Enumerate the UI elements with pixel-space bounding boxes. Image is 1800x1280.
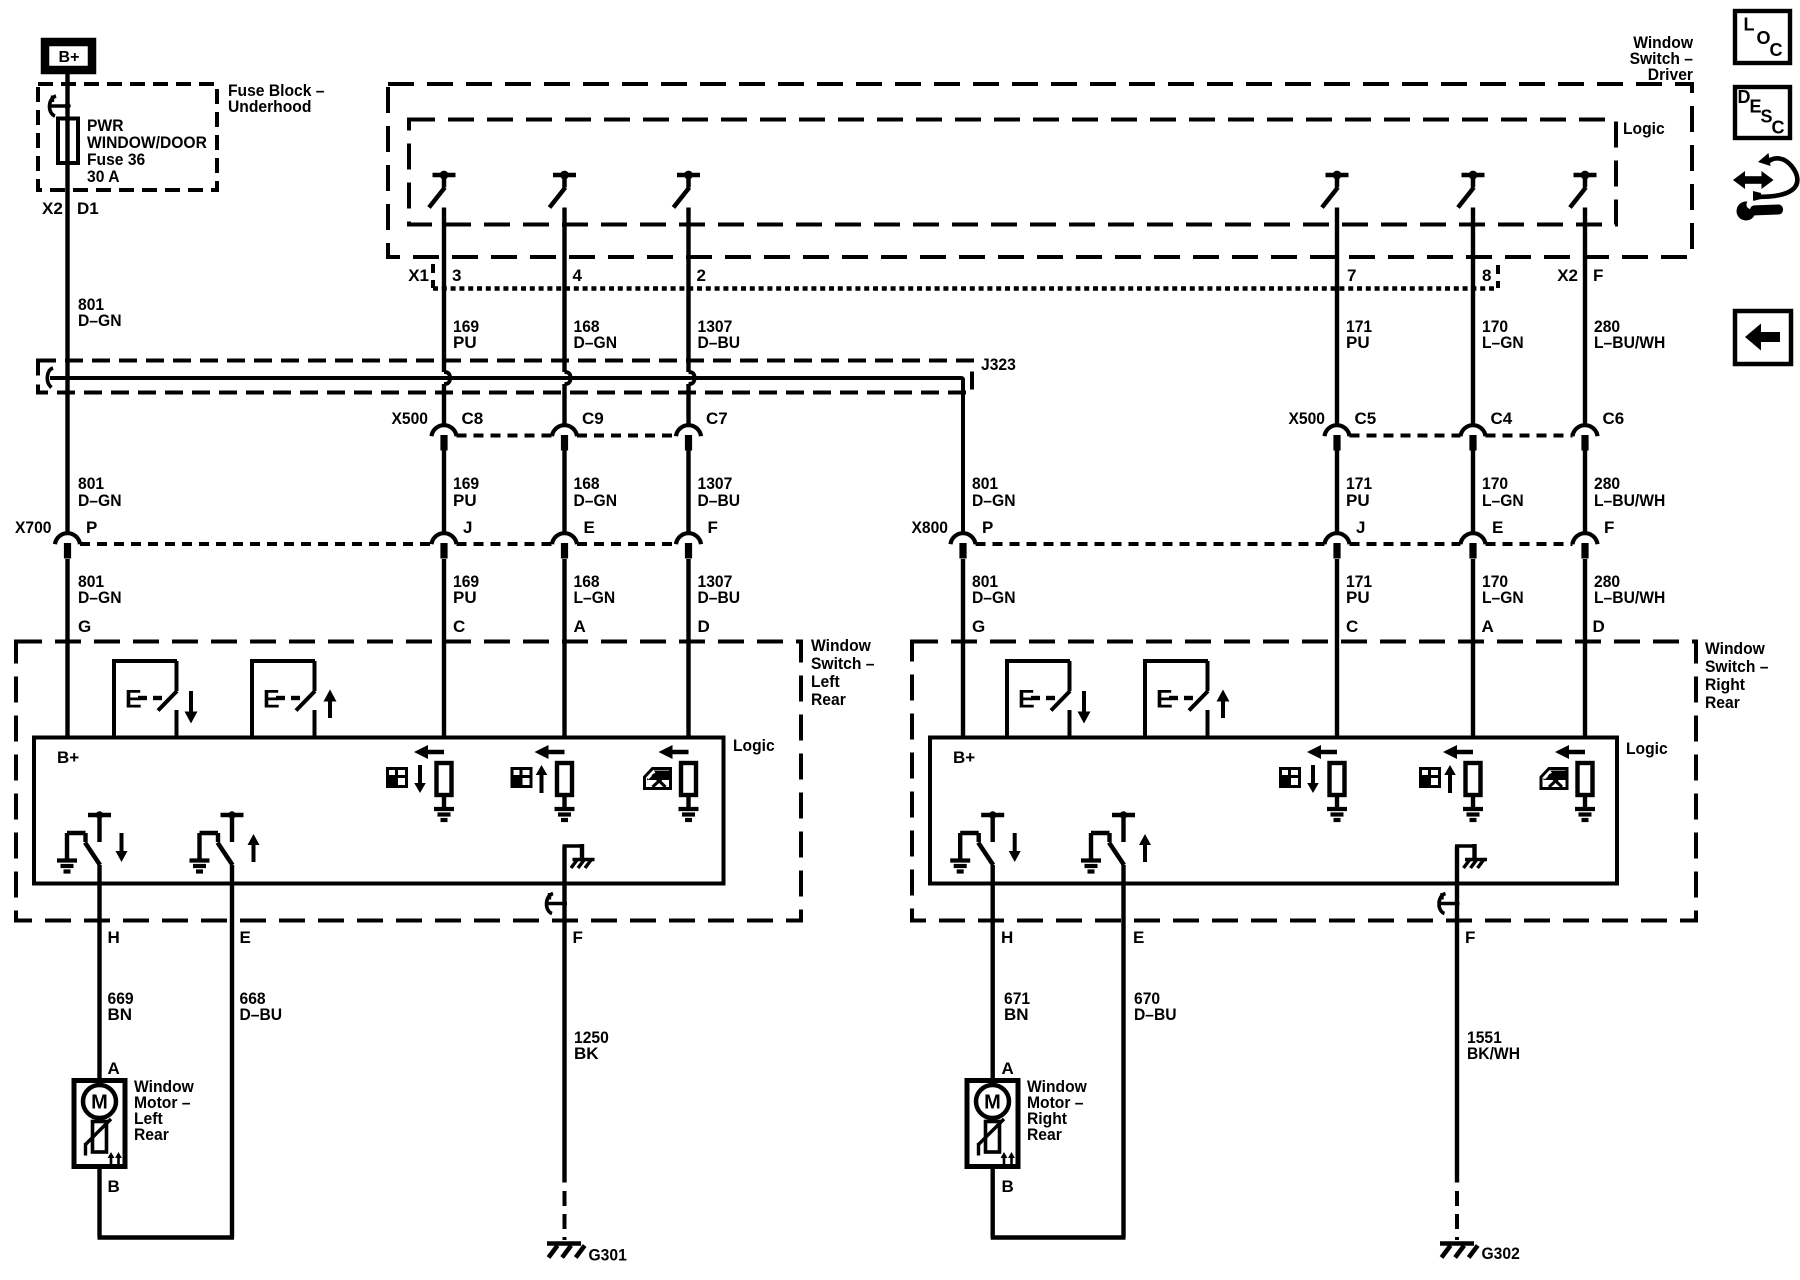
svg-text:D–BU: D–BU xyxy=(698,491,741,510)
svg-text:B: B xyxy=(1002,1177,1014,1196)
svg-text:4: 4 xyxy=(573,266,583,285)
svg-text:Underhood: Underhood xyxy=(228,97,311,116)
svg-text:A: A xyxy=(574,617,586,636)
svg-text:X500: X500 xyxy=(1289,409,1326,428)
svg-text:G301: G301 xyxy=(589,1245,627,1264)
svg-text:X2: X2 xyxy=(42,199,63,218)
svg-text:A: A xyxy=(1002,1059,1014,1078)
svg-text:D–BU: D–BU xyxy=(240,1005,283,1024)
svg-text:D–GN: D–GN xyxy=(78,491,122,510)
svg-text:C: C xyxy=(1346,617,1358,636)
svg-text:E: E xyxy=(584,518,595,537)
svg-text:2: 2 xyxy=(697,266,706,285)
svg-text:Rear: Rear xyxy=(1705,693,1740,712)
svg-text:F: F xyxy=(1465,928,1475,947)
svg-text:PU: PU xyxy=(1346,333,1370,352)
svg-text:L–BU/WH: L–BU/WH xyxy=(1594,333,1665,352)
svg-text:J: J xyxy=(463,518,472,537)
svg-text:Logic: Logic xyxy=(1626,739,1668,758)
svg-text:B+: B+ xyxy=(953,748,975,767)
svg-text:X2: X2 xyxy=(1557,266,1578,285)
svg-text:A: A xyxy=(108,1059,120,1078)
svg-text:D–GN: D–GN xyxy=(972,491,1016,510)
svg-text:A: A xyxy=(1482,617,1494,636)
svg-text:L–GN: L–GN xyxy=(574,588,616,607)
svg-text:D–GN: D–GN xyxy=(574,333,618,352)
svg-text:J: J xyxy=(1356,518,1365,537)
svg-text:H: H xyxy=(108,928,120,947)
svg-text:C: C xyxy=(453,617,465,636)
svg-text:Window: Window xyxy=(811,636,872,655)
svg-text:L: L xyxy=(1744,15,1755,35)
svg-text:7: 7 xyxy=(1347,266,1356,285)
svg-text:Right: Right xyxy=(1705,675,1745,694)
svg-text:D–BU: D–BU xyxy=(698,588,741,607)
svg-text:F: F xyxy=(1604,518,1614,537)
svg-text:H: H xyxy=(1001,928,1013,947)
svg-text:3: 3 xyxy=(452,266,461,285)
svg-text:J323: J323 xyxy=(981,355,1016,374)
svg-text:C: C xyxy=(1772,118,1785,138)
svg-text:L–GN: L–GN xyxy=(1482,333,1524,352)
svg-text:C6: C6 xyxy=(1603,409,1625,428)
svg-text:E: E xyxy=(1133,928,1144,947)
svg-text:G: G xyxy=(78,617,91,636)
svg-text:C8: C8 xyxy=(462,409,484,428)
svg-text:Driver: Driver xyxy=(1648,65,1694,84)
svg-text:Logic: Logic xyxy=(733,736,775,755)
svg-text:L–BU/WH: L–BU/WH xyxy=(1594,491,1665,510)
svg-text:C4: C4 xyxy=(1491,409,1513,428)
svg-text:C7: C7 xyxy=(706,409,728,428)
svg-text:D–GN: D–GN xyxy=(78,588,122,607)
svg-text:30 A: 30 A xyxy=(87,167,120,186)
svg-text:C9: C9 xyxy=(582,409,604,428)
svg-text:O: O xyxy=(1757,28,1771,48)
svg-text:F: F xyxy=(1593,266,1603,285)
svg-text:D–GN: D–GN xyxy=(78,311,122,330)
svg-text:D–BU: D–BU xyxy=(698,333,741,352)
svg-text:BN: BN xyxy=(1004,1005,1029,1024)
svg-text:X500: X500 xyxy=(392,409,429,428)
svg-text:PU: PU xyxy=(453,333,477,352)
svg-text:D: D xyxy=(1593,617,1605,636)
svg-text:PU: PU xyxy=(1346,588,1370,607)
svg-text:C: C xyxy=(1770,40,1783,60)
svg-text:Switch –: Switch – xyxy=(811,654,874,673)
svg-text:L–GN: L–GN xyxy=(1482,491,1524,510)
svg-text:Left: Left xyxy=(811,672,840,691)
svg-text:Rear: Rear xyxy=(811,690,846,709)
svg-text:PU: PU xyxy=(453,588,477,607)
svg-text:M: M xyxy=(984,1091,1001,1113)
svg-text:PU: PU xyxy=(453,491,477,510)
svg-text:Switch –: Switch – xyxy=(1705,657,1768,676)
svg-text:E: E xyxy=(1492,518,1503,537)
svg-text:C5: C5 xyxy=(1355,409,1377,428)
svg-text:G: G xyxy=(972,617,985,636)
svg-text:D: D xyxy=(698,617,710,636)
svg-text:L–GN: L–GN xyxy=(1482,588,1524,607)
svg-text:L–BU/WH: L–BU/WH xyxy=(1594,588,1665,607)
svg-text:Rear: Rear xyxy=(1027,1125,1062,1144)
svg-text:X700: X700 xyxy=(15,518,52,537)
svg-text:X800: X800 xyxy=(912,518,949,537)
svg-text:D1: D1 xyxy=(77,199,99,218)
svg-text:M: M xyxy=(91,1091,108,1113)
svg-text:B: B xyxy=(108,1177,120,1196)
svg-text:D–GN: D–GN xyxy=(574,491,618,510)
svg-text:E: E xyxy=(240,928,251,947)
svg-text:D–BU: D–BU xyxy=(1134,1005,1177,1024)
svg-text:Window: Window xyxy=(1705,639,1766,658)
svg-text:BN: BN xyxy=(108,1005,133,1024)
svg-text:8: 8 xyxy=(1482,266,1491,285)
svg-text:F: F xyxy=(708,518,718,537)
svg-text:D–GN: D–GN xyxy=(972,588,1016,607)
svg-text:B+: B+ xyxy=(59,49,80,66)
svg-text:BK: BK xyxy=(574,1044,599,1063)
svg-text:F: F xyxy=(573,928,583,947)
svg-text:P: P xyxy=(86,518,97,537)
svg-text:Rear: Rear xyxy=(134,1125,169,1144)
svg-text:X1: X1 xyxy=(408,266,429,285)
svg-text:B+: B+ xyxy=(57,748,79,767)
svg-text:G302: G302 xyxy=(1482,1244,1520,1263)
svg-text:PU: PU xyxy=(1346,491,1370,510)
svg-text:P: P xyxy=(982,518,993,537)
svg-text:Logic: Logic xyxy=(1623,119,1665,138)
svg-text:BK/WH: BK/WH xyxy=(1467,1044,1520,1063)
